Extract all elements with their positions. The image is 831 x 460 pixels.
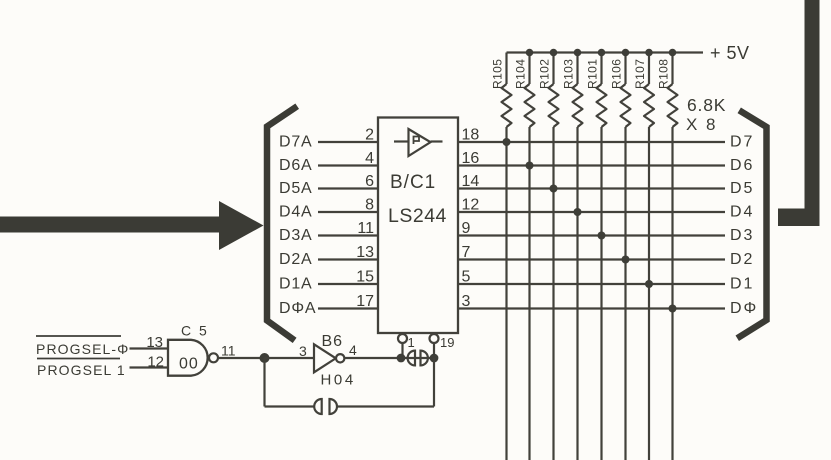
resistor R103 [562,53,583,128]
svg-text:12: 12 [147,354,164,371]
junction dot D1 / bus [645,280,653,288]
svg-text:4: 4 [349,342,357,358]
svg-text:R105: R105 [491,59,505,89]
resistor R106 [610,53,631,128]
wire: vertical bus line from R104 to bottom [528,127,530,460]
wire: vertical bus line from R107 to bottom [648,127,650,460]
wire up to pin19 node [433,358,435,407]
+5V power rail [507,51,704,53]
wire pin19 down [433,343,435,358]
wire bottom right segment [337,405,434,407]
junction dot on +5V rail at R107 [645,49,653,57]
wire B6 output to enable pins [345,357,435,359]
svg-text:D4: D4 [730,204,754,221]
wire C5 output to node [218,357,265,359]
svg-text:H04: H04 [321,372,356,389]
resistor R104 [514,53,535,128]
svg-text:DΦ: DΦ [730,300,758,317]
svg-text:D5A: D5A [279,180,313,197]
svg-text:11: 11 [221,343,236,359]
svg-text:DΦA: DΦA [279,300,316,317]
svg-text:16: 16 [462,150,480,167]
junction dot D2 / bus [622,256,630,264]
resistor R102 [538,53,559,128]
svg-text:R107: R107 [633,59,647,89]
junction dot D6 / bus [526,162,534,170]
NAND gate C5 (7400) [168,340,208,376]
svg-text:9: 9 [462,220,471,237]
svg-text:B6: B6 [322,333,344,350]
svg-text:R101: R101 [586,59,600,89]
buffer gate symbol inside U1 [394,129,443,156]
output bubble of B6 [336,354,344,362]
svg-text:R108: R108 [657,59,671,89]
wire pin1 down [401,343,403,358]
wire D6A to pin 4 [318,164,378,166]
wire: vertical bus line from R108 to bottom [671,127,673,460]
svg-text:R106: R106 [610,59,624,89]
junction dot on +5V rail at R103 [574,49,582,57]
svg-text:14: 14 [462,173,480,190]
resistor R107 [633,53,654,128]
svg-text:15: 15 [356,269,374,286]
svg-text:13: 13 [356,244,374,261]
wire bottom left segment [265,405,315,407]
wire node down [263,358,265,407]
junction dot on +5V rail at R104 [526,49,534,57]
svg-text:LS244: LS244 [388,205,447,227]
svg-text:19: 19 [440,335,454,350]
svg-text:6: 6 [365,173,374,190]
svg-text:4: 4 [365,150,374,167]
svg-text:R104: R104 [514,59,528,89]
inverter B6 (H04) [314,344,336,372]
junction dot below pin 19 [430,354,439,363]
wire PROGSEL0 to pin 13 [130,347,169,349]
wire PROGSEL1 to pin 12 [130,366,169,368]
svg-text:C 5: C 5 [181,323,209,339]
wire pin 14 to D5 [459,187,725,189]
svg-text:00: 00 [179,356,199,373]
svg-text:D3: D3 [730,227,754,244]
wire D3A to pin 11 [318,234,378,236]
wire D7A to pin 2 [318,141,378,143]
svg-text:D2: D2 [730,251,754,268]
svg-text:D6A: D6A [279,157,313,174]
signal PROGSEL0 (active low) [36,336,129,357]
wire pin 16 to D6 [459,164,725,166]
wire: vertical bus line from R106 to bottom [624,127,626,460]
wire D1A to pin 15 [318,283,378,285]
pin 19 enable bubble [430,334,439,343]
wire D2A to pin 13 [318,258,378,260]
wire: vertical bus line from R102 to bottom [552,127,554,460]
wire: vertical bus line from R105 to bottom [505,127,507,460]
svg-text:12: 12 [462,197,480,214]
svg-text:R103: R103 [562,59,576,89]
wire pin 12 to D4 [459,211,725,213]
resistor R105 [491,53,512,128]
wire D5A to pin 6 [318,187,378,189]
svg-text:D2A: D2A [279,251,313,268]
page border top-right [778,0,820,226]
connector symbol pair on bottom wire [314,399,337,414]
svg-text:11: 11 [357,220,374,237]
svg-text:3: 3 [462,293,471,310]
svg-text:D1A: D1A [279,276,313,293]
svg-text:3: 3 [299,343,307,359]
svg-text:7: 7 [462,244,471,261]
svg-text:PROGSEL-Φ: PROGSEL-Φ [36,341,129,357]
junction dot on +5V rail at R102 [550,49,558,57]
svg-text:R102: R102 [538,59,552,89]
svg-text:D3A: D3A [279,227,313,244]
junction dot D3 / bus [598,232,606,240]
output bubble of C5 [209,353,218,362]
wire pin 9 to D3 [459,234,725,236]
buffer IC U1 B/C1 LS244 box [378,118,458,334]
svg-text:+ 5V: + 5V [710,43,750,63]
junction dot D7 / bus [503,138,511,146]
resistor R108 [657,53,678,128]
wire: vertical bus line from R101 to bottom [600,127,602,460]
left bus bracket [267,108,295,339]
svg-text:1: 1 [408,335,415,350]
junction dot on +5V rail at R101 [598,49,606,57]
wire pin 7 to D2 [459,258,725,260]
svg-text:D7A: D7A [279,134,313,151]
svg-text:X 8: X 8 [686,115,718,134]
wire pin 3 to D0 [459,307,725,309]
svg-text:D6: D6 [730,157,754,174]
svg-text:17: 17 [356,293,374,310]
junction dot on +5V rail at R106 [622,49,630,57]
svg-text:D4A: D4A [279,204,313,221]
junction node at C5 output [260,353,270,363]
svg-text:PROGSEL 1: PROGSEL 1 [37,362,126,378]
svg-text:D7: D7 [730,134,754,151]
junction dot D5 / bus [550,185,558,193]
svg-text:5: 5 [462,269,471,286]
connector symbol pair on enable wire [408,351,428,366]
svg-text:13: 13 [146,334,163,351]
wire D4A to pin 8 [318,211,378,213]
wire node to inverter input pin 3 [265,357,315,359]
resistor R101 [586,53,607,128]
junction dot on +5V rail at R108 [669,49,677,57]
svg-text:2: 2 [365,127,374,144]
svg-text:6.8K: 6.8K [687,95,726,115]
wire pin 18 to D7 [459,141,725,143]
svg-text:D5: D5 [730,180,754,197]
svg-text:D1: D1 [730,276,754,293]
right bus bracket [740,112,767,337]
svg-text:B/C1: B/C1 [390,172,436,193]
junction dot below pin 1 [397,354,406,363]
svg-text:8: 8 [365,197,374,214]
wire pin 5 to D1 [459,283,725,285]
junction dot D4 / bus [574,208,582,216]
wire D0A to pin 17 [318,307,378,309]
junction dot D0 / bus [669,305,677,313]
svg-text:18: 18 [462,127,480,144]
signal PROGSEL1 (active low) [37,359,126,379]
wire: vertical bus line from R103 to bottom [576,127,578,460]
bus entry arrow (left) [0,201,264,250]
pin 1 enable bubble [398,334,407,343]
